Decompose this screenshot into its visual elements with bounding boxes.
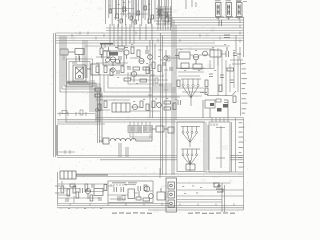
wire xyxy=(168,54,243,68)
node bus junctions xyxy=(72,32,220,43)
label title bottom-left xyxy=(112,212,152,214)
label parts list lower xyxy=(239,122,245,167)
resistor R3 xyxy=(107,47,110,58)
inductor L1 xyxy=(99,133,152,144)
wire U1 loops xyxy=(130,133,152,140)
capacitor C1 xyxy=(109,6,168,24)
wire xyxy=(57,122,129,157)
module M3 outline xyxy=(177,49,214,69)
wire xyxy=(206,122,208,172)
resistor R19 xyxy=(94,189,103,196)
resistor R26 xyxy=(96,62,161,74)
wire heavy segment xyxy=(100,43,113,45)
transistor Q10 xyxy=(144,186,153,198)
label note top-right xyxy=(216,1,247,18)
wire band xyxy=(57,114,244,125)
wire right mesh xyxy=(176,48,238,96)
wire left bus xyxy=(54,33,56,157)
node amp ticks xyxy=(110,184,126,200)
resistor R22 xyxy=(157,188,165,200)
resistor R8 xyxy=(104,66,113,76)
wire corner ticks xyxy=(58,150,76,154)
resistor R13 xyxy=(98,101,107,111)
label bottom-left values xyxy=(60,208,102,210)
wire xyxy=(236,118,244,210)
label T1 xyxy=(72,62,77,65)
resistor R4 xyxy=(115,46,128,49)
resistor R5 xyxy=(131,47,134,54)
node stub marks xyxy=(148,50,170,95)
connector J2 xyxy=(226,3,232,20)
transistor Q4 xyxy=(131,71,136,82)
resistor R25 xyxy=(60,49,84,61)
capacitor C13 xyxy=(128,62,173,70)
capacitor C10 xyxy=(114,187,124,192)
wire xyxy=(160,168,244,212)
transistor Q7 xyxy=(132,104,137,109)
capacitor C4 xyxy=(117,70,119,74)
wire xyxy=(108,185,153,196)
wire bus right drop xyxy=(236,17,244,60)
wire routing mesh xyxy=(100,70,176,96)
wire bus top xyxy=(172,18,244,26)
resistor R2 xyxy=(100,44,103,58)
resistor R9 xyxy=(124,78,147,82)
node top connector bus xyxy=(106,0,172,27)
resistor R23 xyxy=(186,160,195,170)
wire band lower xyxy=(57,156,244,160)
transistor Q5 xyxy=(193,54,199,64)
label J1 xyxy=(215,0,221,18)
wire xyxy=(96,44,155,75)
amplifier A1 outline xyxy=(108,181,153,203)
rectifier module U2 xyxy=(112,103,130,112)
resistor R1 xyxy=(87,64,99,75)
resistor R24 xyxy=(219,68,236,103)
resistor R14 xyxy=(140,101,155,111)
capacitor C3 xyxy=(146,46,148,54)
wire xyxy=(240,60,242,116)
capacitor C2 xyxy=(119,56,121,64)
resistor R27 xyxy=(177,80,208,95)
resistor R6 xyxy=(137,50,140,57)
capacitor C7 xyxy=(219,20,230,38)
capacitor C11 xyxy=(138,186,141,197)
wire bottom bus xyxy=(57,200,244,211)
connector J3 xyxy=(237,3,243,20)
wire center verticals xyxy=(98,17,177,175)
capacitor C8 xyxy=(178,100,181,105)
transistor Q1 xyxy=(110,57,116,66)
resistor R30 xyxy=(95,88,101,97)
capacitor C15 xyxy=(66,184,101,202)
resistor R18 xyxy=(61,184,88,196)
inductor L2 taps xyxy=(67,81,88,84)
wire xyxy=(55,172,60,205)
label J3 xyxy=(236,0,242,18)
resistor R11 xyxy=(210,50,221,57)
resistor R17 xyxy=(60,171,108,179)
transistor Q8 xyxy=(157,103,162,108)
wire xyxy=(110,24,152,46)
module M2 outline xyxy=(66,84,100,122)
wire left bus bends xyxy=(60,36,102,122)
wire xyxy=(90,80,99,122)
label values mid row xyxy=(99,98,177,102)
label K1 xyxy=(200,92,207,93)
capacitor C14 xyxy=(209,74,213,77)
wire nested corner xyxy=(83,40,87,78)
wire transformer loop xyxy=(67,59,93,87)
label A1 xyxy=(112,182,137,183)
amplifier block outline xyxy=(177,122,204,172)
transistor Q6 xyxy=(203,51,208,56)
resistor R28 xyxy=(70,184,107,201)
capacitor C6 xyxy=(233,53,241,56)
label parts list upper xyxy=(242,63,248,114)
node band ticks xyxy=(60,110,86,116)
capacitor C12 xyxy=(220,75,234,103)
label values upper-right xyxy=(180,44,235,71)
wire xyxy=(186,0,196,9)
resistor R15 xyxy=(164,101,176,110)
connector J1 xyxy=(216,3,222,20)
transistor Q9 xyxy=(85,188,91,199)
resistor R16 xyxy=(152,126,174,133)
label title bottom-right xyxy=(188,212,235,214)
capacitor C5 xyxy=(226,47,229,57)
node junction knot xyxy=(156,6,172,30)
label notes bottom-right xyxy=(182,186,202,194)
wire bus main xyxy=(56,28,244,46)
label values center xyxy=(104,44,160,84)
wire xyxy=(76,172,244,177)
resistor R7 xyxy=(133,67,150,70)
diode matrix D2 xyxy=(181,127,200,148)
label J2 xyxy=(226,0,232,18)
resistor R10 xyxy=(175,52,190,59)
module U3 outline xyxy=(209,118,232,173)
capacitor C9 xyxy=(80,188,83,193)
transistor Q3 xyxy=(139,58,144,63)
wire xyxy=(96,97,180,111)
module M1 outline xyxy=(103,51,124,65)
wire xyxy=(58,181,170,204)
transistor Q11 xyxy=(111,55,168,73)
resistor R12 xyxy=(181,63,202,69)
resistor R20 xyxy=(128,189,135,199)
diode matrix D1 xyxy=(181,79,201,106)
op-amp U1 xyxy=(128,122,153,133)
diode D4 xyxy=(213,183,223,192)
transistor Q2 xyxy=(124,50,129,59)
resistor R21 xyxy=(143,198,150,201)
transformer T1 xyxy=(73,56,86,81)
diode matrix D3 xyxy=(181,149,200,171)
relay K1 xyxy=(203,91,236,118)
connector J4 xyxy=(166,178,177,212)
resistor R29 xyxy=(118,185,147,201)
